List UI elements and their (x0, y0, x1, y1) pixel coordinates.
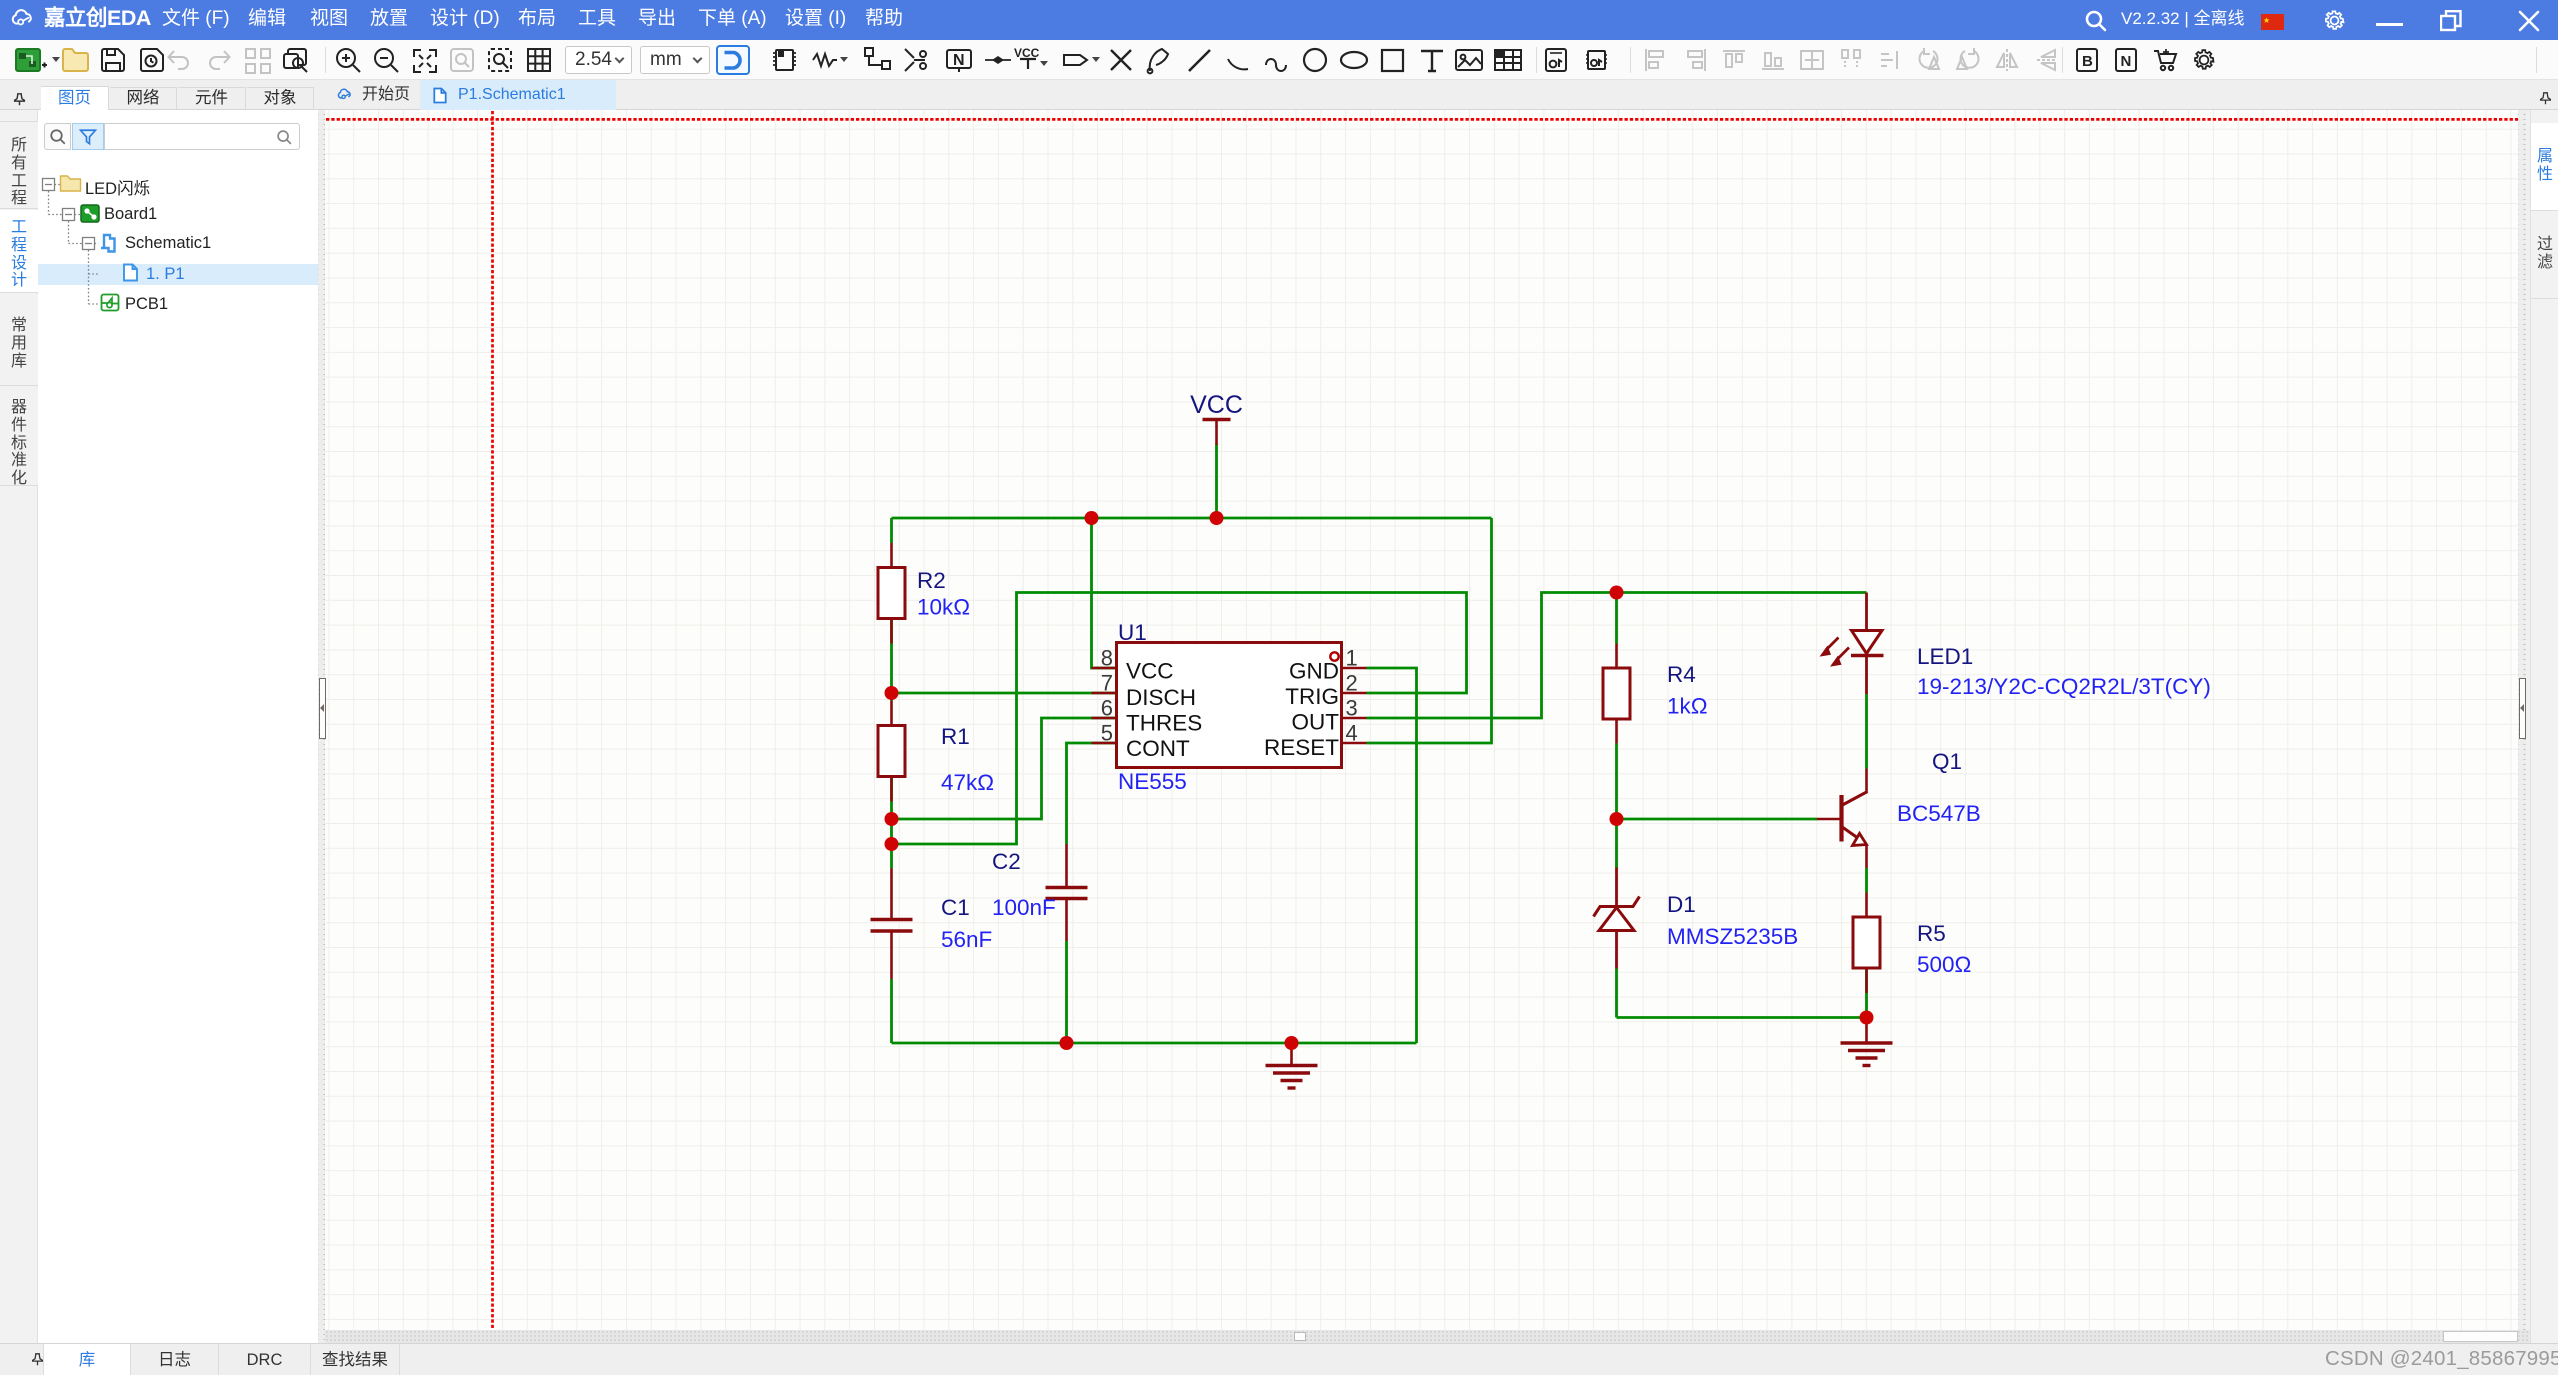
svg-text:N: N (2121, 53, 2132, 70)
resistor R5 (1853, 893, 1880, 994)
pin names left (1126, 659, 1202, 762)
junction node TRIG (885, 837, 899, 851)
junction node THRES (885, 812, 899, 826)
junction node OUT rail (1610, 586, 1624, 600)
wire ground bus (892, 1042, 1417, 1045)
wire VCC stem (1215, 444, 1218, 518)
junction node base (1610, 812, 1624, 826)
resistor R1 (878, 701, 905, 802)
wire VCC top rail (892, 517, 1492, 520)
wire D1 bottom (1615, 969, 1618, 1018)
wire pin8 drop (1092, 518, 1117, 668)
capacitor C2 (1046, 844, 1088, 941)
wire right ground bus (1617, 1016, 1867, 1019)
resistor R4 (1603, 644, 1630, 744)
pin numbers left (1101, 646, 1113, 746)
ground symbol left (1266, 1043, 1318, 1088)
wire TRIG feedback (892, 593, 1467, 845)
wire R1 bottom (890, 777, 893, 869)
pin 6 THRES stub (1092, 717, 1117, 720)
ground symbol right (1841, 1018, 1893, 1066)
selected row highlight (38, 264, 319, 285)
capacitor C1 (871, 869, 913, 980)
tree connectors and icons (38, 110, 319, 330)
junction node C2 gnd (1060, 1036, 1074, 1050)
pin 7 DISCH stub (1092, 692, 1117, 695)
wire R4 bottom to base node (1615, 744, 1618, 869)
wire CONT to C2 (1067, 743, 1117, 844)
pin 3 OUT stub (1342, 717, 1367, 720)
wire emitter to R5 (1865, 868, 1868, 893)
wire LED cathode to collector (1865, 694, 1868, 769)
junction node DISCH (885, 686, 899, 700)
pin names right (1264, 659, 1339, 761)
svg-text:N: N (953, 52, 965, 69)
pin 2 TRIG stub (1342, 692, 1367, 695)
junction node VCC rail stem (1210, 511, 1224, 525)
op-amp U1 NE555 body (1117, 643, 1342, 768)
LED LED1 (1820, 593, 1884, 695)
wire C2 bottom (1065, 941, 1068, 1043)
pin 8 VCC stub (1092, 667, 1117, 670)
wire base (1617, 818, 1818, 821)
junction node gnd left (1285, 1036, 1299, 1050)
power flag VCC (1203, 420, 1231, 446)
wire GND pin1 drop (1367, 668, 1417, 1043)
pin 1 GND stub (1342, 667, 1367, 670)
wire R2 bottom to DISCH node (890, 619, 893, 701)
sheet border top (326, 118, 2518, 121)
junction node VCC rail left (1085, 511, 1099, 525)
wire C1 bottom (890, 979, 893, 1043)
wire R2 top (890, 518, 893, 543)
junction node gnd right (1860, 1011, 1874, 1025)
resistor R2 (878, 543, 905, 644)
svg-text:B: B (2082, 53, 2093, 70)
pin numbers right (1346, 646, 1358, 746)
pin 5 CONT stub (1092, 742, 1117, 745)
pin 4 RESET stub (1342, 742, 1367, 745)
transistor Q1 (1817, 769, 1868, 869)
search row (44, 123, 71, 150)
diode D1 zener (1594, 868, 1640, 969)
sheet border left (491, 111, 494, 1330)
wire R4 top (1615, 593, 1618, 644)
wire R5 bottom (1865, 968, 1868, 1018)
wire reset drop (1367, 518, 1492, 743)
wire DISCH pin7 (892, 692, 1117, 695)
wire THRES branch (892, 718, 1117, 819)
wire OUT to LED rail (1367, 593, 1867, 719)
